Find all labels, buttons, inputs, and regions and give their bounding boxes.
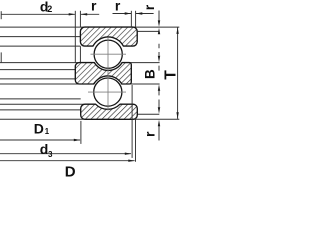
ball 2 centerline [88, 91, 126, 93]
arrowheads [69, 12, 179, 162]
wire [0, 69, 75, 71]
D1 extension line [80, 121, 82, 144]
wire [0, 118, 179, 120]
T dimension line [177, 27, 179, 119]
d3 arrow [125, 153, 132, 155]
D dimension line [0, 160, 135, 162]
wire [138, 30, 160, 32]
d2 extension line [0, 11, 2, 19]
wire [0, 78, 75, 80]
wire [129, 83, 160, 85]
svg-text:3: 3 [48, 150, 53, 159]
svg-text:r: r [142, 131, 158, 137]
left side view lines [0, 27, 179, 119]
r1 dimension tail [81, 13, 99, 15]
svg-text:r: r [115, 0, 121, 14]
wire [0, 109, 81, 111]
ball 1 centerline [91, 53, 127, 55]
svg-text:r: r [91, 0, 97, 14]
right r/B column x=159 [158, 11, 160, 22]
r1 extension lines [74, 11, 76, 63]
D1 dimension line [0, 139, 80, 141]
r2 left arrow [136, 12, 143, 14]
d2 arrow [69, 13, 76, 15]
wire [129, 62, 160, 64]
bottom washer [81, 104, 138, 119]
wire [0, 83, 94, 85]
wire [137, 113, 159, 115]
r top-right up arrow [158, 28, 160, 35]
wire [0, 36, 80, 38]
svg-text:T: T [162, 70, 179, 80]
middle washer [75, 63, 131, 84]
wire [0, 26, 179, 28]
wire [0, 103, 96, 105]
r bottom-right down arrow [158, 107, 160, 114]
svg-text:2: 2 [47, 4, 52, 14]
svg-text:1: 1 [45, 127, 50, 136]
svg-text:r: r [141, 4, 157, 10]
wire [0, 45, 80, 47]
r2 extension lines [130, 11, 132, 27]
T top arrow [176, 27, 178, 34]
r1 left arrow [81, 13, 88, 15]
top washer [80, 27, 137, 46]
svg-text:D: D [34, 120, 44, 136]
ball 2 [94, 78, 122, 106]
D1 arrow [74, 139, 81, 141]
ball 1 [94, 40, 122, 68]
r2 right arrow [125, 12, 132, 14]
wire [0, 62, 94, 64]
r bottom-right up arrow [158, 120, 160, 127]
d3 dimension line [0, 153, 131, 155]
d3 extension line [131, 85, 133, 158]
B top down arrow [158, 56, 160, 63]
svg-text:B: B [143, 69, 158, 79]
wire [0, 98, 81, 100]
r top-right down arrow [158, 20, 160, 27]
T bottom arrow [176, 112, 178, 119]
dimension thin lines [0, 11, 178, 162]
centerline through balls [107, 37, 109, 110]
svg-text:D: D [65, 164, 76, 180]
B bottom up arrow [158, 84, 160, 91]
D arrow [128, 160, 135, 162]
r2 dimension line [113, 13, 132, 15]
D extension line [135, 118, 137, 162]
d2 dimension line [1, 13, 75, 15]
